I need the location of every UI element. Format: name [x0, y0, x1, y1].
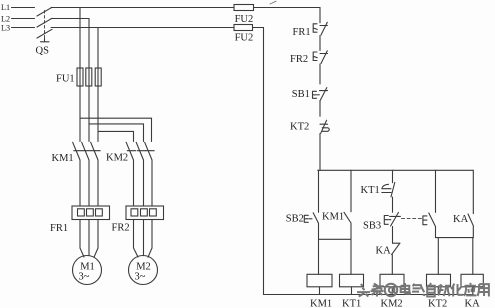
svg-text:FU2: FU2: [235, 14, 254, 25]
svg-text:KM1: KM1: [322, 212, 344, 223]
svg-text:L3: L3: [1, 24, 10, 33]
svg-text:KM1: KM1: [310, 299, 332, 308]
svg-text:L1: L1: [1, 3, 10, 12]
svg-text:3~: 3~: [79, 272, 90, 283]
svg-text:KT2: KT2: [290, 121, 309, 132]
svg-text:FR2: FR2: [290, 54, 308, 65]
svg-text:KM2: KM2: [381, 299, 403, 308]
svg-text:KT2: KT2: [428, 299, 447, 308]
svg-text:KM1: KM1: [52, 153, 74, 164]
svg-text:KA: KA: [453, 214, 469, 225]
svg-text:QS: QS: [36, 46, 50, 57]
svg-text:KA: KA: [465, 299, 481, 308]
svg-text:SB2: SB2: [286, 214, 304, 225]
svg-text:FR2: FR2: [112, 223, 130, 234]
svg-text:KT1: KT1: [342, 299, 361, 308]
svg-text:KA: KA: [376, 246, 392, 257]
svg-text:FR1: FR1: [50, 223, 68, 234]
svg-text:SB1: SB1: [292, 89, 310, 100]
svg-text:FU1: FU1: [56, 74, 75, 85]
svg-text:L2: L2: [1, 15, 10, 24]
svg-text:KM2: KM2: [106, 153, 128, 164]
svg-text:KT1: KT1: [361, 185, 380, 196]
svg-text:3~: 3~: [135, 272, 146, 283]
svg-text:FR1: FR1: [293, 27, 311, 38]
svg-text:SB3: SB3: [363, 221, 381, 232]
svg-text:FU2: FU2: [235, 33, 254, 44]
